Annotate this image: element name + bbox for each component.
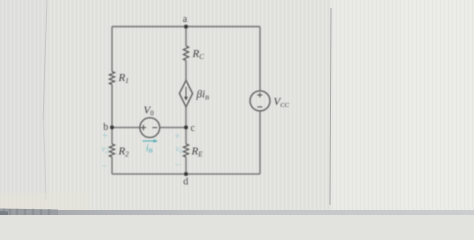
voltage source VCC	[250, 91, 290, 111]
wire: top rail from top-left corner to top-right corner	[112, 26, 260, 28]
resistor RC	[183, 46, 204, 61]
current label iB with arrow	[143, 139, 158, 154]
wire: base wire node b to V0 source to node c	[112, 127, 186, 129]
voltage polarity labels across RE	[175, 132, 183, 172]
voltage polarity labels across R2	[102, 131, 110, 172]
wire: left rail, corner down to node b	[111, 27, 113, 128]
wire: middle branch dependent source to node c	[185, 107, 187, 128]
wire: middle branch node a to Rc to dependent source	[185, 27, 187, 81]
right page fold line	[330, 8, 331, 205]
resistor RE	[183, 144, 203, 159]
svg-text:+: +	[175, 132, 181, 143]
svg-text:−: −	[102, 161, 108, 172]
node b	[103, 122, 114, 133]
left page crease line	[43, 0, 47, 120]
bottom photo edge band	[0, 210, 474, 215]
svg-text:a: a	[183, 14, 188, 25]
wire: bottom rail	[112, 173, 260, 175]
node c	[184, 123, 196, 134]
wire: right rail through Vcc source	[259, 27, 261, 174]
svg-text:−: −	[175, 160, 181, 171]
svg-text:+: +	[102, 131, 108, 142]
faint warm paper tint above bottom edge	[0, 193, 90, 210]
node a	[183, 14, 188, 29]
resistor R2	[109, 144, 129, 159]
voltage source V0	[140, 105, 160, 138]
dependent current source βiB	[179, 80, 209, 106]
svg-text:d: d	[183, 177, 188, 188]
resistor R1	[109, 72, 128, 86]
wire: middle branch node c through RE to node d	[185, 127, 187, 174]
svg-text:c: c	[191, 123, 196, 134]
node d	[183, 172, 188, 188]
wire: left rail, node b down through R2 to bottom rail	[111, 127, 113, 174]
